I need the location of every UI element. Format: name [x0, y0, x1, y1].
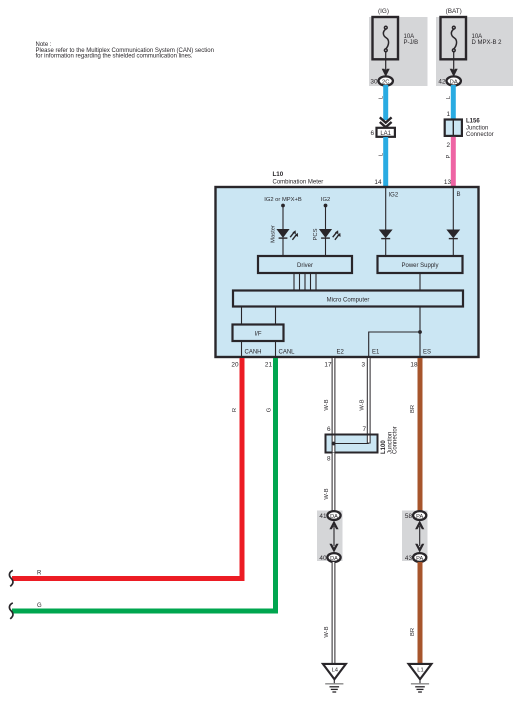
svg-text:Junction: Junction — [466, 126, 488, 132]
wire P pink from L156 to combination meter pin 13 — [451, 137, 456, 187]
svg-text:DA: DA — [330, 514, 338, 520]
svg-text:L1: L1 — [417, 668, 423, 674]
ground symbol — [411, 680, 429, 693]
svg-text:DA: DA — [450, 79, 458, 85]
wire node to LED2 — [325, 206, 327, 230]
internal wire pin14 to diode — [385, 187, 387, 230]
svg-text:14: 14 — [374, 179, 382, 186]
svg-text:Power Supply: Power Supply — [401, 263, 438, 269]
svg-text:42: 42 — [438, 79, 446, 86]
connector pair DA gray box — [317, 511, 343, 562]
combination meter box — [216, 187, 479, 357]
arrowhead into DA — [450, 69, 458, 77]
svg-text:I/F: I/F — [255, 332, 262, 338]
ground L4 triangle — [323, 664, 346, 679]
svg-text:6: 6 — [370, 130, 374, 137]
connector oval DA pin 42 — [447, 76, 461, 85]
wire node to E1 — [369, 332, 420, 357]
connector oval 2C pin 30 — [379, 76, 393, 85]
wire power supply to micro computer — [419, 273, 421, 291]
svg-text:Micro Computer: Micro Computer — [327, 298, 370, 304]
svg-text:1: 1 — [446, 111, 450, 118]
node junction dot — [418, 330, 422, 334]
svg-text:D MPX-B 2: D MPX-B 2 — [472, 40, 503, 46]
svg-text:6: 6 — [327, 426, 331, 433]
svg-text:PCS: PCS — [313, 228, 319, 240]
svg-text:L10: L10 — [273, 171, 284, 178]
svg-text:7: 7 — [362, 426, 366, 433]
connector oval PA pin 58 — [413, 511, 426, 520]
fuse F2 element — [451, 26, 456, 51]
svg-text:(IG): (IG) — [378, 8, 389, 15]
wire W-B connector 40 to ground — [332, 562, 336, 664]
micro computer block — [233, 291, 463, 307]
diode D1 — [380, 230, 392, 239]
svg-text:P: P — [446, 154, 452, 158]
svg-text:W-B: W-B — [324, 488, 330, 499]
junction connector L100 — [326, 435, 378, 453]
svg-text:for information regarding the: for information regarding the shielded c… — [36, 53, 193, 59]
fuse F1 10A P-J/B body — [373, 17, 399, 59]
arrows between connectors — [329, 520, 338, 552]
wire micro computer to E1/ES node — [419, 307, 421, 358]
power supply block — [378, 256, 463, 273]
diode D2 — [447, 230, 459, 239]
wire BR brown ES pin18 to connector 58 — [418, 358, 423, 511]
internal link in L100 — [334, 443, 369, 445]
svg-text:BR: BR — [410, 405, 416, 413]
svg-text:40: 40 — [319, 555, 327, 562]
wire W-B L100 to connector 41 — [332, 453, 336, 512]
note text — [36, 42, 214, 59]
label L156 Junction Connector — [466, 119, 494, 139]
wires I/F to CANH CANL pins — [241, 341, 243, 357]
svg-text:Connector: Connector — [393, 426, 399, 454]
wire node to LED1 — [282, 206, 284, 230]
arrowhead into 2C — [382, 69, 390, 77]
arrows between connectors — [415, 520, 424, 552]
svg-text:Master: Master — [271, 225, 277, 243]
svg-text:43: 43 — [405, 555, 413, 562]
svg-text:3: 3 — [361, 362, 365, 369]
svg-text:P-J/B: P-J/B — [404, 40, 419, 46]
svg-text:30: 30 — [370, 79, 378, 86]
svg-text:2: 2 — [446, 142, 450, 149]
svg-text:R: R — [232, 408, 238, 412]
svg-text:B: B — [457, 192, 461, 198]
svg-text:BR: BR — [410, 628, 416, 636]
fuse block BAT gray box — [436, 17, 513, 86]
wire L blue from 2C to connector LA1 — [383, 85, 388, 120]
fuse F2 value label 10A D MPX-B 2 — [472, 34, 503, 46]
svg-text:17: 17 — [324, 362, 332, 369]
wire W-B E2 pin17 to L100 — [332, 358, 336, 434]
junction connector L156 — [445, 120, 462, 136]
svg-text:R: R — [37, 571, 42, 577]
wire break squiggle — [9, 570, 13, 586]
svg-text:Combination Meter: Combination Meter — [273, 180, 324, 186]
svg-text:18: 18 — [410, 362, 418, 369]
connector pair PA gray box — [402, 511, 428, 562]
wire W-B through L100 — [332, 436, 336, 453]
LED2 PCS — [320, 230, 341, 240]
svg-text:L156: L156 — [466, 119, 480, 125]
wire E1 into L100 — [367, 436, 371, 444]
svg-text:G: G — [267, 407, 273, 412]
LED1 Master — [277, 230, 298, 240]
fuse F1 value label 10A P-J/B — [404, 34, 419, 46]
svg-text:E1: E1 — [372, 350, 380, 356]
svg-text:(BAT): (BAT) — [446, 8, 462, 15]
junction dot in L100 — [332, 442, 336, 446]
svg-text:IG2: IG2 — [321, 197, 330, 203]
wire R red CANH — [12, 358, 242, 579]
fuse block IG junction block gray box — [369, 17, 428, 86]
wire G green CANL — [12, 358, 276, 611]
svg-text:PA: PA — [416, 556, 423, 562]
wire W-B E1 pin3 to L100 — [367, 358, 371, 434]
driver block — [258, 256, 352, 273]
svg-text:W-B: W-B — [324, 399, 330, 410]
svg-text:L4: L4 — [332, 668, 339, 674]
fuse F1 element — [383, 26, 388, 51]
connector LA1 pin 6 — [377, 128, 395, 137]
ground symbol — [325, 680, 343, 693]
svg-text:DA: DA — [330, 556, 338, 562]
connector oval DA pin 40 — [327, 553, 340, 562]
wire L blue from DA to junction connector L156 — [451, 85, 456, 120]
connector oval PA pin 43 — [413, 553, 426, 562]
svg-text:58: 58 — [405, 513, 413, 520]
svg-text:20: 20 — [231, 362, 239, 369]
svg-text:8: 8 — [327, 456, 331, 463]
svg-text:2C: 2C — [382, 79, 389, 85]
svg-text:CANL: CANL — [279, 350, 296, 356]
wire LED2 to driver — [325, 238, 327, 256]
internal wire diode to power supply — [385, 239, 387, 256]
wire from fuse BAT to connector DA — [453, 52, 455, 73]
svg-text:21: 21 — [265, 362, 273, 369]
svg-text:Connector: Connector — [466, 132, 494, 138]
node dot — [281, 204, 285, 208]
svg-text:LA1: LA1 — [380, 131, 391, 137]
bus wires driver to micro computer — [294, 273, 316, 291]
svg-text:CANH: CANH — [245, 350, 262, 356]
internal wire diode to power supply — [452, 239, 454, 256]
svg-text:L100: L100 — [381, 440, 387, 454]
wires micro computer to I/F — [241, 307, 243, 325]
node dot — [324, 204, 328, 208]
svg-text:W-B: W-B — [360, 399, 366, 410]
svg-text:IG2 or MPX+B: IG2 or MPX+B — [264, 197, 302, 203]
svg-text:PA: PA — [416, 514, 423, 520]
I/F block — [233, 325, 284, 342]
wire break squiggle — [9, 603, 13, 619]
svg-text:Driver: Driver — [297, 263, 313, 269]
wire LED1 to driver — [282, 238, 284, 256]
wire L blue from LA1 to combination meter pin 14 — [383, 137, 388, 187]
wire BR connector 43 to ground — [418, 562, 423, 664]
svg-text:IG2: IG2 — [389, 193, 399, 199]
fuse F2 10A D MPX-B 2 body — [441, 17, 467, 59]
svg-text:41: 41 — [319, 513, 327, 520]
svg-text:G: G — [37, 603, 42, 609]
label L100 Junction Connector (rotated) — [381, 426, 399, 454]
svg-text:E2: E2 — [337, 350, 345, 356]
ground L1 triangle — [409, 664, 432, 679]
svg-text:ES: ES — [423, 350, 431, 356]
svg-text:W-B: W-B — [324, 626, 330, 637]
in-line connector chevrons above LA1 — [380, 117, 392, 127]
connector oval DA pin 41 — [327, 511, 340, 520]
svg-text:13: 13 — [444, 179, 452, 186]
internal wire pin13 to diode — [452, 187, 454, 230]
wire from fuse IG to connector 2C — [385, 52, 387, 73]
